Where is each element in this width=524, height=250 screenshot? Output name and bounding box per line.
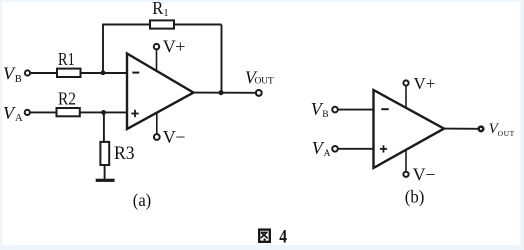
svg-text:R3: R3 <box>114 143 135 164</box>
svg-text:V−: V− <box>163 127 185 147</box>
svg-text:A: A <box>324 149 331 159</box>
svg-text:R1: R1 <box>58 49 75 69</box>
svg-text:B: B <box>322 110 328 120</box>
svg-text:(b): (b) <box>405 187 425 208</box>
svg-text:OUT: OUT <box>498 129 515 138</box>
svg-text:1: 1 <box>163 8 168 19</box>
svg-text:R2: R2 <box>58 89 76 109</box>
svg-text:A: A <box>15 113 23 124</box>
svg-text:(a): (a) <box>133 190 151 211</box>
svg-text:R: R <box>152 0 163 18</box>
svg-text:OUT: OUT <box>255 77 274 87</box>
svg-text:B: B <box>15 74 22 85</box>
svg-text:V−: V− <box>413 165 436 185</box>
svg-text:V+: V+ <box>414 74 436 93</box>
svg-text:4: 4 <box>279 227 287 247</box>
svg-text:V+: V+ <box>163 37 185 57</box>
